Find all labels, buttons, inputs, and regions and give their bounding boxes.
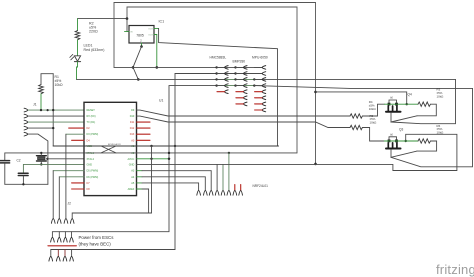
wire row4 return loop Q3 xyxy=(391,88,473,166)
header BMP280 socket pins xyxy=(236,66,248,106)
label R3 value xyxy=(437,88,445,99)
svg-text:J1: J1 xyxy=(33,102,37,106)
wire NRF pin3 from A5 xyxy=(137,182,143,184)
svg-text:D6 (PWM): D6 (PWM) xyxy=(87,176,99,179)
node crystal taps xyxy=(40,152,42,154)
svg-text:D5 (PWM): D5 (PWM) xyxy=(87,170,99,173)
wire sensor row 3 (long from LED gnd to right) xyxy=(77,78,217,80)
svg-text:D13: D13 xyxy=(130,133,135,136)
connector J1 pin 4 wire to +5V vertical xyxy=(28,127,54,129)
svg-text:XTAL1: XTAL1 xyxy=(87,152,95,155)
svg-text:Q3: Q3 xyxy=(399,128,403,132)
label R4 value xyxy=(369,100,377,111)
pin stub NRF pin8 unconnected xyxy=(240,185,242,191)
wire +5V long line through chip xyxy=(53,145,278,147)
wire into IN pin xyxy=(127,19,129,32)
wire comb1 pin3 to D3 xyxy=(66,133,84,135)
label LED1 value xyxy=(84,44,105,52)
wire XTAL1 row to C1 xyxy=(5,153,84,160)
header HMC5883L socket pins xyxy=(217,66,229,94)
node sensor column junctions xyxy=(168,66,256,160)
wire comb1 pin2 to D6 xyxy=(59,176,84,178)
header NRF arrows xyxy=(197,191,243,196)
wire comb1 pin1 to D5 xyxy=(53,170,84,172)
svg-text:XTAL2: XTAL2 xyxy=(87,158,95,161)
wire sensor row 4 with vertical and right extension xyxy=(169,86,217,232)
header comb2 arrows xyxy=(51,238,74,243)
transistor Q3 xyxy=(384,133,418,148)
label power from ESCs xyxy=(79,235,115,247)
J1 header arrows xyxy=(24,108,28,136)
svg-text:10kΩ: 10kΩ xyxy=(370,121,378,125)
capacitor C1 xyxy=(0,161,10,163)
header comb3 arrows xyxy=(49,257,74,262)
svg-text:RX (D0): RX (D0) xyxy=(87,115,96,118)
svg-text:D10: D10 xyxy=(130,115,135,118)
capacitor C2 xyxy=(18,173,28,175)
wire NRF pin5 from GND row xyxy=(222,164,224,190)
resistor R4 xyxy=(350,114,362,118)
wire OUT1 down then long shallow diagonal to +5V drop xyxy=(159,28,278,146)
pin stub D11 unconnected xyxy=(137,121,151,123)
connector J1 pin 5 wire + diagonal to gnd vertical xyxy=(28,134,48,184)
wire vertical joining VCC and AVCC rows down to bottom bus xyxy=(151,146,153,213)
svg-text:AVCC: AVCC xyxy=(128,158,135,161)
svg-text:NRF24L01: NRF24L01 xyxy=(253,184,269,188)
svg-text:IC1: IC1 xyxy=(159,20,165,24)
svg-text:10kΩ: 10kΩ xyxy=(55,83,63,87)
wire NRF pin6 from A2 row xyxy=(228,153,230,191)
svg-text:Q4: Q4 xyxy=(408,93,412,97)
wire comb1 pin4 to bottom bus xyxy=(72,213,151,219)
node GND frame taps xyxy=(314,91,317,94)
wire gate line B: D10 to R5 xyxy=(137,116,351,127)
wire OUT2 down to sensor GND row xyxy=(156,35,158,68)
wire Q3 source stub and diagonal xyxy=(391,150,417,158)
resistor R3 xyxy=(418,102,431,106)
wire NRF pin4 from GND row xyxy=(216,164,218,190)
label R6 value xyxy=(437,124,445,135)
crystal X1 xyxy=(37,153,47,165)
LED LED1 xyxy=(70,54,81,67)
voltage regulator IC1 xyxy=(125,26,159,47)
wire NRF pin1 from A3 xyxy=(137,170,143,172)
wire R3 loop to source xyxy=(417,104,436,116)
pin stub D12 unconnected xyxy=(137,127,151,129)
wire red underline bus xyxy=(48,245,77,247)
wire gate line A: D9 to R4 xyxy=(137,110,351,116)
node A2 row taps xyxy=(168,152,170,154)
resistor R2 xyxy=(75,19,80,56)
svg-text:AREF: AREF xyxy=(128,188,135,191)
svg-text:C2: C2 xyxy=(17,159,21,163)
pin stub NRF pin7 unconnected xyxy=(234,185,236,191)
pin stub D8 unconnected xyxy=(72,188,84,190)
svg-text:220Ω: 220Ω xyxy=(89,30,98,34)
pin stub MPU rows 5-8 unconnected xyxy=(255,91,263,93)
wire C1 bottom to gnd xyxy=(4,164,6,185)
wire sensor row 1 (GND) xyxy=(114,66,262,68)
svg-text:D12: D12 xyxy=(130,127,135,130)
pin stub A0 unconnected xyxy=(137,139,151,141)
svg-text:10kΩ: 10kΩ xyxy=(369,107,377,111)
wire sensor row 2 (VCC) with long vertical xyxy=(175,74,262,250)
resistor R1 xyxy=(39,85,44,111)
wire +5V vertical (to long 146 line) xyxy=(52,74,54,146)
svg-text:U1: U1 xyxy=(159,98,163,102)
wire Q4 drain feed from GND frame xyxy=(316,92,407,104)
wire NRF pin2 from A4 xyxy=(137,176,143,178)
wire XTAL1/A2 long line through chip xyxy=(84,152,297,154)
wire regulator GND diagonal to row and LED gnd xyxy=(140,45,143,48)
wire AVCC stub xyxy=(137,158,170,160)
svg-text:GND: GND xyxy=(87,163,93,166)
wire XTAL2 stub to chip xyxy=(47,158,84,160)
svg-text:J2: J2 xyxy=(68,202,72,206)
pin stub BMP rows 5-7 unconnected xyxy=(236,91,244,93)
op-amp U1 microcontroller body xyxy=(84,102,137,195)
wire R1 top bar xyxy=(41,74,53,85)
wire comb2 stems xyxy=(58,232,60,238)
node J1 row1 junctions xyxy=(40,109,42,111)
wire gnd rail bottom xyxy=(5,183,48,185)
transistor Q4 xyxy=(384,97,418,112)
wire C2 bottom to gnd rail xyxy=(22,176,24,184)
wire Q4 source stub and diagonal xyxy=(391,113,417,122)
svg-text:ATMEGA328: ATMEGA328 xyxy=(108,143,122,146)
connector J1 pin 3 wire xyxy=(28,121,84,123)
pin labels left column xyxy=(87,109,99,191)
wire VIN net frame (inner rectangle) xyxy=(127,7,297,153)
node regulator input junction xyxy=(126,17,129,20)
connector J1 pin 1 wire xyxy=(28,109,84,111)
pin stub D4 unconnected xyxy=(72,139,84,141)
wire R5 to Q3 gate xyxy=(362,128,384,142)
connector comb3 bar xyxy=(51,250,175,257)
connector comb2 ESC power bar xyxy=(52,232,169,238)
svg-text:fritzing: fritzing xyxy=(436,262,474,277)
svg-text:10kΩ: 10kΩ xyxy=(437,131,445,135)
wire GND long line to Q3 cell xyxy=(137,134,457,170)
pin stub HMC row5 unconnected xyxy=(217,91,225,93)
node Q3 drain junction xyxy=(405,140,407,142)
svg-text:10kΩ: 10kΩ xyxy=(437,94,445,98)
svg-text:BMP280: BMP280 xyxy=(233,60,246,64)
label R2 value xyxy=(89,22,98,34)
svg-text:RESET: RESET xyxy=(87,109,96,112)
svg-text:OUT: OUT xyxy=(148,35,153,37)
wire crossover X inside chip xyxy=(101,146,116,153)
wire AREF pin to bottom bus xyxy=(137,188,143,190)
svg-text:MPU-6050: MPU-6050 xyxy=(252,56,268,60)
svg-text:D11: D11 xyxy=(130,121,135,124)
svg-text:7805: 7805 xyxy=(136,34,144,38)
wire GND row to C2 top xyxy=(23,164,84,172)
resistor R5 xyxy=(350,125,362,129)
wire R6 loop to source xyxy=(417,141,437,151)
svg-text:(they have BEC): (they have BEC) xyxy=(79,242,112,247)
svg-text:TX (D1): TX (D1) xyxy=(87,121,96,124)
svg-text:HMC5883L: HMC5883L xyxy=(210,56,227,60)
pin stub D2 unconnected xyxy=(69,127,84,129)
header MPU-6050 socket pins xyxy=(254,66,265,112)
wire row3 return loop Q4 xyxy=(391,79,456,123)
wire LED cathode down to GND row xyxy=(77,67,78,79)
header comb1 arrows xyxy=(51,219,74,224)
pin stub D7 unconnected xyxy=(72,182,84,184)
wire comb3 stems xyxy=(57,250,59,257)
wire GND net frame (outer rectangle) xyxy=(114,3,316,164)
wire R4 to Q4 gate xyxy=(362,104,384,116)
pin labels right column xyxy=(128,109,135,191)
svg-text:GND: GND xyxy=(129,163,135,166)
svg-text:OUT: OUT xyxy=(148,29,153,31)
svg-text:D3 (PWM): D3 (PWM) xyxy=(87,133,99,136)
resistor R6 xyxy=(418,139,431,143)
label R1 value xyxy=(55,75,63,87)
wire R2 top to regulator input node xyxy=(78,18,128,20)
node +5V taps xyxy=(150,145,152,147)
pin stub D13 unconnected xyxy=(137,133,151,135)
svg-text:Power from ESCs: Power from ESCs xyxy=(79,235,115,240)
label R5 value xyxy=(370,114,378,125)
svg-text:Red (633nm): Red (633nm) xyxy=(84,48,105,52)
connector J1 pin 2 wire xyxy=(28,115,84,117)
